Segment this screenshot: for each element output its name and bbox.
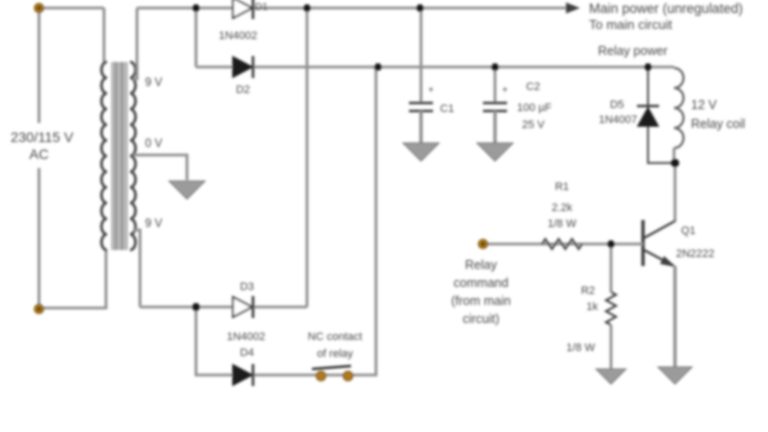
svg-text:Q1: Q1 [681, 225, 696, 237]
wire: secondary bottom tap [133, 230, 140, 307]
resistor R2 [606, 292, 616, 325]
terminal: AC input bottom [34, 304, 43, 313]
svg-text:1N4002: 1N4002 [219, 30, 258, 42]
svg-text:1N4002: 1N4002 [227, 331, 266, 343]
wire: AC input left vertical lower [38, 168, 41, 308]
svg-text:D5: D5 [610, 99, 624, 111]
relay coil K1 [674, 68, 684, 148]
NC contact terminal right [343, 371, 353, 381]
resistor R1 [542, 239, 582, 249]
wire: R2 to ground [610, 325, 613, 369]
svg-text:+: + [428, 85, 434, 96]
svg-text:1/8 W: 1/8 W [548, 218, 577, 230]
svg-text:1k: 1k [586, 301, 598, 313]
wire: R2 branch [610, 244, 613, 292]
svg-text:9 V: 9 V [145, 218, 163, 230]
node: top rail / C1 [416, 4, 424, 12]
svg-text:1N4007: 1N4007 [599, 114, 638, 126]
wire: base wire [483, 243, 643, 246]
node: bottom tap split [192, 303, 200, 311]
diode D5 wire [648, 67, 675, 163]
svg-text:AC: AC [29, 146, 48, 162]
ground: center tap [169, 181, 205, 199]
wire: secondary top tap to top rail [133, 8, 137, 79]
transistor Q1 emitter slant [644, 250, 674, 266]
wire: D4 branch bottom [196, 67, 376, 375]
svg-text:R2: R2 [581, 285, 595, 297]
svg-text:C1: C1 [440, 103, 454, 115]
ground: C2 [477, 143, 513, 161]
wire: drop from top rail to relay rail [195, 8, 198, 67]
svg-text:C2: C2 [526, 81, 540, 93]
svg-text:+: + [502, 85, 508, 96]
capacitor C1 branch wire [420, 8, 423, 103]
wire: AC input bottom horizontal [39, 249, 106, 308]
diode D2 [233, 57, 252, 77]
svg-text:R1: R1 [555, 181, 569, 193]
node: base / R2 [607, 240, 615, 248]
svg-text:100 µF: 100 µF [517, 102, 552, 114]
wire: relay rail [196, 66, 674, 69]
NC contact terminal left [316, 371, 326, 381]
svg-text:Relay power: Relay power [598, 44, 667, 58]
capacitor C2 branch wire [494, 67, 497, 103]
diode D4 [233, 365, 252, 385]
svg-text:12 V: 12 V [691, 98, 717, 112]
wire: bottom tap horizontal to D3 [140, 306, 307, 309]
wire: primary top drop [103, 8, 106, 63]
ground: emitter [658, 367, 692, 384]
svg-text:1/8 W: 1/8 W [566, 342, 595, 354]
wire C1 to ground [419, 111, 422, 143]
capacitor C1 plates [409, 102, 433, 104]
svg-text:Main power (unregulated): Main power (unregulated) [589, 1, 743, 16]
node: top rail / D3 branch [303, 4, 311, 12]
wire: D3 branch vertical to top rail [306, 8, 309, 307]
svg-text:9 V: 9 V [145, 77, 163, 89]
svg-text:circuit): circuit) [463, 312, 500, 326]
svg-text:command: command [454, 276, 509, 290]
wire: top rail (main dc rail) [137, 7, 566, 10]
ground: C1 [403, 143, 439, 161]
wire: AC input left vertical upper [38, 8, 41, 123]
transformer T1 core [111, 62, 128, 250]
ground: R2 [596, 369, 626, 384]
wire: emitter vertical [673, 266, 676, 367]
diode D3 [233, 297, 252, 317]
wire: secondary center tap [133, 155, 187, 180]
arrow: to main circuit [566, 3, 580, 14]
svg-text:D1: D1 [255, 2, 268, 13]
node: relay rail / D4 branch [374, 63, 382, 71]
svg-text:of relay: of relay [317, 348, 354, 360]
diode D5 (flyback, pointing up) [638, 108, 658, 126]
transistor Q1 emitter arrow [660, 256, 676, 267]
svg-text:D4: D4 [240, 347, 254, 359]
terminal: relay command input [478, 239, 487, 248]
wire: coil bottom to junction [673, 148, 676, 163]
capacitor C2 plates [483, 102, 507, 104]
transistor Q1 collector slant [644, 221, 675, 238]
svg-text:To main circuit: To main circuit [589, 17, 672, 32]
terminal: AC input top [34, 3, 43, 12]
node: coil bottom / collector [671, 159, 679, 167]
svg-text:Relay: Relay [465, 258, 498, 272]
transformer T1 secondary winding [130, 62, 136, 250]
diode D1 [233, 0, 252, 18]
node: relay rail / D5 [644, 63, 652, 71]
wire: collector vertical [674, 163, 677, 222]
svg-text:NC contact: NC contact [308, 331, 362, 343]
transistor Q1 base bar [641, 220, 644, 266]
wire C2 to ground [493, 111, 496, 143]
NC contact of relay: bar [312, 366, 351, 369]
svg-text:D2: D2 [236, 84, 250, 96]
wire: AC input top horizontal [39, 7, 104, 10]
transformer T1 primary winding [101, 62, 107, 250]
svg-text:2N2222: 2N2222 [676, 248, 715, 260]
node: top rail / relay rail drop [192, 4, 200, 12]
node: relay rail / C2 [491, 63, 499, 71]
svg-text:25 V: 25 V [522, 119, 545, 131]
svg-text:Relay coil: Relay coil [691, 117, 745, 131]
svg-text:2.2k: 2.2k [552, 202, 573, 214]
svg-text:(from main: (from main [451, 294, 511, 308]
svg-text:0 V: 0 V [145, 138, 163, 150]
svg-text:230/115 V: 230/115 V [11, 129, 74, 145]
svg-text:D3: D3 [240, 281, 254, 293]
